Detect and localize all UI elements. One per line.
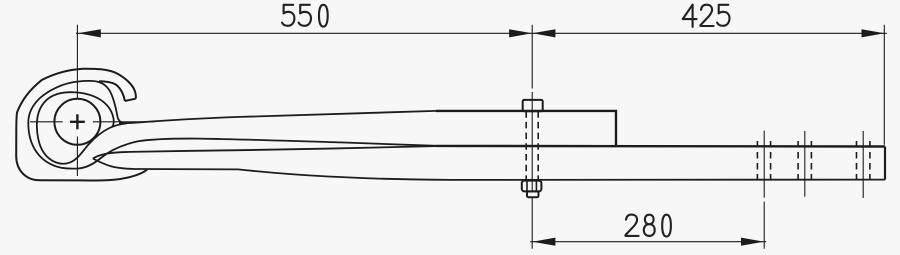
lower leaf bottom edge xyxy=(93,159,885,181)
centre bolt shank (hidden) xyxy=(526,111,538,180)
hole 2 (hidden) xyxy=(798,141,811,184)
wire: eye horizontal centerline xyxy=(30,121,155,123)
hole in spring eye xyxy=(54,99,100,145)
eye wrap end inner edge xyxy=(99,81,125,101)
lower leaf right end edge xyxy=(884,147,886,180)
dimension text 280 xyxy=(626,215,671,237)
centre bolt end xyxy=(527,191,539,197)
hole 3 centerline xyxy=(862,131,864,198)
upper leaf top edge (line 1) xyxy=(119,111,436,123)
hole 1 centerline xyxy=(763,131,765,249)
eye wrap end cut xyxy=(125,99,136,101)
lower leaf tapered tip xyxy=(93,146,436,158)
eye coil A: lands on line 1, wraps around, becomes upper leaf bottom edge (line 2) xyxy=(28,81,436,169)
spring eye outer wrap contour (outer surface) xyxy=(16,69,147,181)
wire: eye vertical centerline / 550 left extension line xyxy=(30,25,155,176)
upper leaf centre section (rectangle) xyxy=(436,111,616,146)
dimension 280 xyxy=(530,241,766,243)
dimension 425 xyxy=(532,25,887,145)
centre bolt head xyxy=(523,100,543,111)
dimension text 550 xyxy=(282,5,328,27)
hole 3 (hidden) xyxy=(857,141,870,184)
eye inner spiral: line 1 dives into the roll and coils one turn xyxy=(37,92,127,164)
centre bolt nut xyxy=(522,181,542,192)
dimension text 425 xyxy=(683,5,730,27)
hole 2 centerline xyxy=(804,131,806,197)
node eye center cross xyxy=(70,114,85,129)
contact line between leaves (thick) xyxy=(436,145,885,148)
dimension 550 xyxy=(76,32,532,34)
hole 1 (hidden) xyxy=(757,141,770,184)
centre bolt centerline / extension line xyxy=(531,25,533,249)
